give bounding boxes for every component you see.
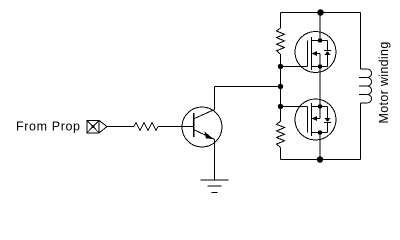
svg-text:Motor winding: Motor winding [377,41,391,123]
svg-text:From Prop: From Prop [16,120,81,134]
